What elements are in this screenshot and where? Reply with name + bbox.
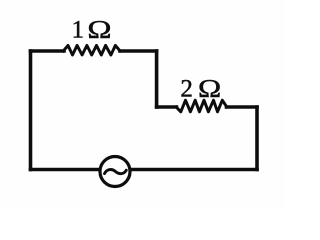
wire: bottom segment right of source xyxy=(131,168,257,172)
wire: mid-level segment left of R2 xyxy=(157,105,177,109)
wire: right vertical side xyxy=(255,107,259,170)
AC source: circle body xyxy=(100,157,130,187)
svg-text:Ω: Ω xyxy=(198,75,221,102)
wire: top segment right of R1 xyxy=(120,49,157,53)
svg-text:Ω: Ω xyxy=(87,16,111,44)
AC source: sine-wave symbol xyxy=(105,170,127,174)
wire: left vertical side xyxy=(29,51,33,170)
resistor R2 (2 ohm) zigzag xyxy=(176,100,227,112)
svg-text:1: 1 xyxy=(72,17,85,44)
wire: middle vertical drop xyxy=(155,51,159,107)
resistor R1 (1 ohm) zigzag xyxy=(63,45,120,55)
wire: top segment left of R1 xyxy=(31,49,65,53)
svg-text:2: 2 xyxy=(180,76,193,103)
wire: mid-level segment right of R2 xyxy=(227,105,258,109)
wire: bottom segment left of source xyxy=(31,168,100,172)
